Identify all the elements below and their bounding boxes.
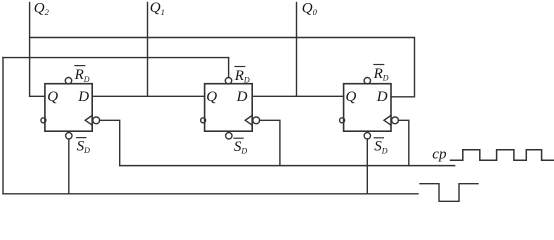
- svg-text:D: D: [77, 89, 89, 105]
- U2 Qbar bubble: [201, 118, 206, 123]
- wire U2 D to U3 Q: [252, 95, 343, 97]
- svg-text:Q: Q: [47, 89, 58, 105]
- U2 label SD: [234, 137, 243, 139]
- node Q1: [147, 3, 149, 97]
- svg-text:RD: RD: [234, 68, 250, 85]
- U1 set bubble: [66, 133, 72, 139]
- svg-text:Q0: Q0: [302, 1, 318, 18]
- svg-text:SD: SD: [77, 138, 91, 155]
- U3 set bubble: [364, 133, 370, 139]
- wire U3 clock to cp line: [398, 120, 408, 165]
- svg-text:Q1: Q1: [150, 0, 165, 17]
- wire preset net left line: [2, 58, 4, 194]
- U1 clock triangle: [85, 115, 92, 125]
- wire U2 reset stub: [228, 58, 230, 78]
- U1 reset bubble: [65, 78, 71, 84]
- U1 Qbar bubble: [41, 118, 46, 123]
- U2 label RD: [235, 66, 245, 68]
- svg-text:Q: Q: [206, 89, 217, 105]
- preset pulse waveform: [420, 184, 478, 202]
- U2 clock triangle: [245, 115, 252, 125]
- wire U1 clock to cp line: [100, 120, 120, 165]
- wire U1 D to U2 Q: [92, 95, 204, 97]
- flip-flop U3 body: [344, 84, 391, 132]
- node Q0: [296, 3, 298, 97]
- flip-flop U1 body: [45, 84, 92, 132]
- svg-text:Q2: Q2: [34, 1, 50, 18]
- wire preset net bottom line: [3, 193, 418, 195]
- svg-text:Q: Q: [346, 89, 357, 105]
- wire feedback Q2 to U3 D: [30, 38, 415, 97]
- cp clock waveform: [451, 150, 554, 161]
- U1 label SD: [77, 137, 86, 139]
- svg-text:SD: SD: [234, 139, 248, 156]
- U1 clock bubble: [93, 117, 100, 124]
- U1 label RD: [75, 65, 85, 67]
- U3 Qbar bubble: [340, 118, 345, 123]
- svg-text:D: D: [236, 89, 248, 105]
- U3 clock bubble: [392, 117, 399, 124]
- flip-flop U2 body: [205, 84, 253, 132]
- U3 reset bubble: [364, 78, 370, 84]
- U3 clock triangle: [384, 115, 391, 125]
- U3 label SD: [374, 137, 383, 139]
- wire U1 set stub: [68, 139, 70, 194]
- svg-text:RD: RD: [74, 67, 90, 84]
- wire U1 Q to node Q2: [30, 95, 45, 97]
- U2 set bubble: [226, 133, 232, 139]
- wire U2 clock to cp line: [260, 120, 280, 165]
- svg-text:SD: SD: [374, 139, 388, 156]
- U2 clock bubble: [253, 117, 260, 124]
- svg-text:D: D: [376, 89, 388, 105]
- wire cp clock line: [120, 165, 455, 167]
- wire preset net top line: [3, 57, 229, 59]
- node Q2: [29, 3, 31, 97]
- U3 label RD: [374, 64, 384, 66]
- wire U3 set stub: [366, 139, 368, 194]
- svg-text:RD: RD: [373, 66, 389, 83]
- U2 reset bubble: [225, 78, 231, 84]
- svg-text:cp: cp: [432, 147, 447, 163]
